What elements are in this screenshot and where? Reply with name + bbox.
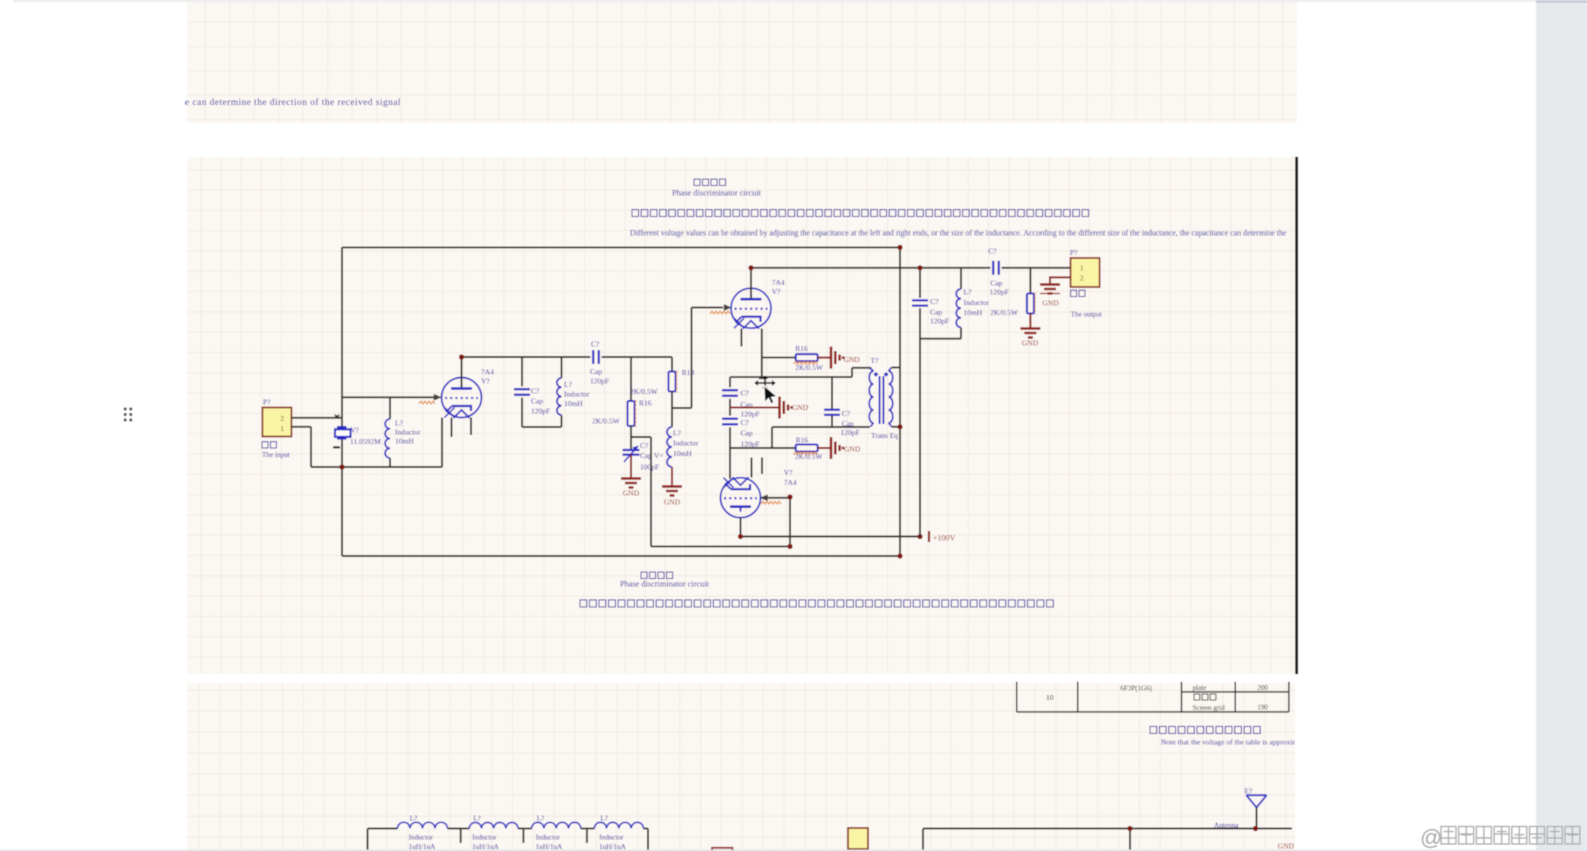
svg-text:GND: GND xyxy=(664,498,681,507)
svg-text:L?: L? xyxy=(564,380,573,389)
svg-text:2K/0.5W: 2K/0.5W xyxy=(795,363,824,372)
svg-text:V?: V? xyxy=(481,377,490,386)
svg-text:Note that the voltage of the t: Note that the voltage of the table is ap… xyxy=(1161,738,1308,747)
svg-text:2K/0.5W: 2K/0.5W xyxy=(990,308,1019,317)
svg-text:Cap: Cap xyxy=(930,308,942,317)
svg-text:The input: The input xyxy=(262,451,290,459)
svg-text:V?: V? xyxy=(784,468,793,477)
svg-text:Trans Eq: Trans Eq xyxy=(871,431,898,440)
svg-text:R16: R16 xyxy=(795,344,808,353)
svg-text:10mH: 10mH xyxy=(673,449,692,458)
svg-text:1: 1 xyxy=(280,424,284,433)
svg-text:C?: C? xyxy=(531,387,540,396)
svg-text:Cap: Cap xyxy=(531,397,543,406)
svg-text:Inductor: Inductor xyxy=(409,834,434,842)
svg-text:10mH: 10mH xyxy=(564,399,583,408)
svg-text:GND: GND xyxy=(1022,339,1039,348)
svg-text:2K/0.5W: 2K/0.5W xyxy=(630,387,659,396)
svg-text:120pF: 120pF xyxy=(531,407,550,416)
svg-text:2K/0.5W: 2K/0.5W xyxy=(795,452,824,461)
svg-text:Cap: Cap xyxy=(590,367,602,376)
svg-text:C?: C? xyxy=(741,418,750,427)
svg-text:Phase discriminator circuit: Phase discriminator circuit xyxy=(672,189,762,198)
svg-text:R16: R16 xyxy=(796,436,809,445)
svg-text:The output: The output xyxy=(1071,311,1102,319)
svg-text:Cap: Cap xyxy=(842,419,854,428)
svg-text:120pF: 120pF xyxy=(990,288,1009,297)
svg-text:P?: P? xyxy=(1070,248,1078,257)
svg-text:L?: L? xyxy=(395,419,404,428)
svg-text:GND: GND xyxy=(1042,299,1059,308)
svg-text:Inductor: Inductor xyxy=(536,834,561,842)
svg-text:Inductor: Inductor xyxy=(599,834,624,842)
svg-text:plate: plate xyxy=(1193,684,1207,692)
svg-text:Cap: Cap xyxy=(741,429,753,438)
svg-text:C?: C? xyxy=(842,409,851,418)
svg-text:Inductor: Inductor xyxy=(395,428,421,437)
svg-text:120pF: 120pF xyxy=(930,317,949,326)
svg-text:C?: C? xyxy=(988,247,997,256)
svg-text:P?: P? xyxy=(263,398,271,407)
svg-text:7A4: 7A4 xyxy=(481,368,494,377)
svg-text:L?: L? xyxy=(410,815,418,823)
svg-text:V?: V? xyxy=(772,287,781,296)
svg-text:Screen grid: Screen grid xyxy=(1193,704,1226,712)
svg-text:C?: C? xyxy=(591,340,600,349)
svg-text:120pF: 120pF xyxy=(590,377,609,386)
svg-text:L?: L? xyxy=(473,815,481,823)
svg-text:Inductor: Inductor xyxy=(564,390,590,399)
svg-text:R18: R18 xyxy=(682,368,695,377)
svg-text:@: @ xyxy=(1420,825,1442,850)
svg-text:e can determine the direction: e can determine the direction of the rec… xyxy=(185,97,401,108)
svg-text:C?: C? xyxy=(640,441,649,450)
svg-text:200: 200 xyxy=(1257,684,1268,692)
svg-text:GND: GND xyxy=(844,355,861,364)
svg-text:Inductor: Inductor xyxy=(472,834,497,842)
svg-text:L?: L? xyxy=(964,288,973,297)
svg-text:Different voltage values can b: Different voltage values can be obtained… xyxy=(630,229,1287,238)
svg-text:L?: L? xyxy=(537,815,545,823)
svg-text:R16: R16 xyxy=(639,399,652,408)
svg-text:120pF: 120pF xyxy=(841,428,860,437)
svg-text:11.0592M: 11.0592M xyxy=(350,437,381,446)
svg-text:7A4: 7A4 xyxy=(772,278,785,287)
svg-text:+100V: +100V xyxy=(933,534,956,543)
svg-text:GND: GND xyxy=(844,445,861,454)
svg-text:C?: C? xyxy=(930,297,939,306)
svg-text:Inductor: Inductor xyxy=(673,439,699,448)
svg-text:L?: L? xyxy=(600,815,608,823)
svg-text:V?: V? xyxy=(351,427,359,435)
svg-text:L?: L? xyxy=(673,429,682,438)
svg-text:E?: E? xyxy=(1244,787,1253,796)
svg-text:2: 2 xyxy=(280,414,284,423)
svg-text:6F3P(1G6): 6F3P(1G6) xyxy=(1120,685,1152,693)
svg-text:2K/0.5W: 2K/0.5W xyxy=(592,417,621,426)
svg-text:2: 2 xyxy=(1080,275,1084,283)
svg-text:10mH: 10mH xyxy=(395,437,414,446)
svg-text:7A4: 7A4 xyxy=(784,478,797,487)
svg-text:Inductor: Inductor xyxy=(964,298,990,307)
svg-text:Cap: Cap xyxy=(990,279,1002,288)
svg-text:10: 10 xyxy=(1046,693,1054,702)
svg-text:GND: GND xyxy=(1278,842,1295,851)
svg-text:T?: T? xyxy=(871,356,880,365)
svg-text:1: 1 xyxy=(1080,265,1084,273)
svg-text:Phase discriminator circuit: Phase discriminator circuit xyxy=(620,580,710,589)
svg-text:10mH: 10mH xyxy=(964,308,983,317)
svg-text:GND: GND xyxy=(623,489,640,498)
svg-text:C?: C? xyxy=(741,389,750,398)
svg-text:190: 190 xyxy=(1257,704,1268,712)
svg-text:GND: GND xyxy=(792,403,809,412)
svg-text:100pF: 100pF xyxy=(640,463,659,472)
